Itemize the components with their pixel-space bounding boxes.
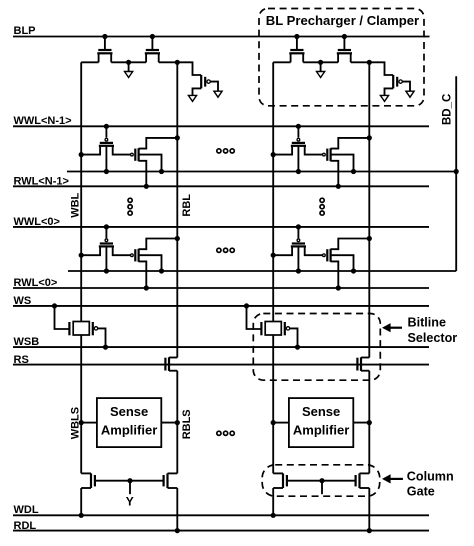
bitline-selector transmission gate (right column, on WBL) <box>261 322 289 336</box>
ground-arrow at precharge middle node (right column) <box>317 62 325 77</box>
svg-text:RWL<N-1>: RWL<N-1> <box>14 175 69 187</box>
wire WBLS to WDL (right column) <box>271 488 276 518</box>
precharge transistor MP1 (right column, gate to BLP) <box>289 34 304 62</box>
wire MR source to read word line (row N-1, right column) <box>331 161 341 189</box>
ellipsis dots between columns (row 0) <box>217 248 235 252</box>
wire RBL/RBLS vertical (left column, middle part) <box>176 371 178 474</box>
svg-text:Amplifier: Amplifier <box>293 423 349 438</box>
wire WBLS to sense amplifier (left column) <box>79 420 97 425</box>
svg-text:WDL: WDL <box>14 504 39 516</box>
svg-text:RBLS: RBLS <box>181 409 193 439</box>
wire column-gate common gate / Y select (left column) <box>95 478 164 494</box>
wire precharge middle node (right column) <box>303 60 338 65</box>
clamp transistor PMOS (right column) <box>369 62 402 88</box>
column-gate transistor on WBLS (right column) <box>273 473 287 488</box>
svg-text:BD_C: BD_C <box>441 94 453 125</box>
wire WBLS to sense amplifier (right column) <box>271 420 289 425</box>
write transistor MW (row 0, left column, gate to word line) <box>79 224 131 258</box>
wire MP1 source to WBL top (left column) <box>81 61 98 63</box>
wire MR source to read word line (row 0, left column) <box>139 261 149 290</box>
wire WDL (write data line) <box>13 514 429 516</box>
wire bulk/body line of row 0 (connects to BD_C) <box>68 270 456 272</box>
write transistor MW (row N-1, right column, gate to word line) <box>271 124 323 157</box>
wire bulk/body line of row N-1 (connects to BD_C) <box>67 171 456 173</box>
wire MP2 drain to RBL top node (right column) <box>351 60 372 65</box>
sense amplifier block U1 (left column) <box>97 398 161 447</box>
read transistor MR (row N-1, left column, gate to storage node) <box>131 148 139 161</box>
wire RBL/RBLS vertical (right column, middle part) <box>368 371 370 474</box>
wire MR source to read word line (row N-1, left column) <box>139 161 149 189</box>
wire WBLS to WDL (left column) <box>79 488 84 518</box>
svg-text:Sense: Sense <box>302 404 340 419</box>
wire clamp drain to ground-arrow (right column) <box>380 88 393 101</box>
wire sense amplifier to RBLS (left column) <box>161 420 180 425</box>
read transistor MR (row N-1, right column, gate to storage node) <box>323 148 331 161</box>
bulk tap of write transistor MW (row 0, left column) <box>104 246 109 273</box>
wire WBL vertical (left column, upper part) <box>80 62 82 321</box>
svg-text:Amplifier: Amplifier <box>101 423 157 438</box>
svg-text:Selector: Selector <box>408 331 458 345</box>
wire MR drain to RBL (row 0, right column) <box>331 236 372 249</box>
svg-text:Y: Y <box>126 495 134 509</box>
dashed box: Column Gate <box>262 465 380 496</box>
wire sense amplifier to RBLS (right column) <box>353 420 372 425</box>
bulk tap of read transistor MR (row N-1, left column) <box>139 155 164 174</box>
svg-text:WBL: WBL <box>70 192 82 217</box>
svg-text:WWL<0>: WWL<0> <box>14 216 60 228</box>
column-gate transistor on WBLS (left column) <box>81 473 95 488</box>
read-select transistor (left column, gate to RS, in series with RBL) <box>165 357 177 371</box>
wire RBLS to RDL (right column) <box>367 488 372 533</box>
wire RWL<N-1> (read word line N-1) <box>13 185 429 187</box>
column-gate transistor on RBLS (left column) <box>164 473 178 488</box>
wire RBL vertical (left column, upper part) <box>176 62 178 357</box>
arrow pointing to bitline selector box <box>382 323 402 332</box>
ellipsis dots between columns (row N-1) <box>217 149 235 153</box>
svg-text:BL Precharger / Clamper: BL Precharger / Clamper <box>266 13 419 28</box>
wire MR drain to RBL (row N-1, left column) <box>139 135 180 148</box>
bulk tap of read transistor MR (row 0, left column) <box>139 255 164 273</box>
svg-text:WSB: WSB <box>14 336 40 348</box>
wire BLP (bitline precharge net) <box>13 36 430 38</box>
wire WS to selector gate (left column) <box>52 303 70 329</box>
wire MR source to read word line (row 0, right column) <box>331 261 341 290</box>
svg-text:WWL<N-1>: WWL<N-1> <box>14 115 72 127</box>
wire WWL<0> (write word line 0) <box>13 226 429 228</box>
wire RBLS to RDL (left column) <box>175 488 180 533</box>
dashed box: Bitline Selector <box>253 314 380 381</box>
wire clamp drain to ground-arrow (left column) <box>188 88 201 101</box>
svg-text:Sense: Sense <box>110 404 148 419</box>
ground-arrow at precharge middle node (left column) <box>125 62 133 77</box>
wire RBL vertical (right column, upper part) <box>368 62 370 357</box>
wire WSB (write select bar) <box>13 346 429 348</box>
wire RDL (read data line) <box>13 530 429 532</box>
svg-text:RWL<0>: RWL<0> <box>14 277 58 289</box>
wire BD_C (body bias line, vertical at right) <box>455 76 457 271</box>
wire selector PMOS gate to WSB (right column) <box>290 328 300 349</box>
svg-text:RS: RS <box>14 354 29 366</box>
label: Bitline Selector <box>408 315 458 344</box>
wire MR drain to RBL (row 0, left column) <box>139 236 180 249</box>
ellipsis dots between sense amplifiers <box>217 431 235 435</box>
wire RWL<0> (read word line 0) <box>13 287 429 289</box>
read transistor MR (row 0, left column, gate to storage node) <box>131 249 139 262</box>
wire RS (read select) <box>13 364 429 366</box>
bulk tap of read transistor MR (row 0, right column) <box>331 255 357 273</box>
wire MP2 drain to RBL top node (left column) <box>159 60 180 65</box>
bulk tap of read transistor MR (row N-1, right column) <box>331 155 357 174</box>
dashed box: BL Precharger / Clamper <box>259 9 424 106</box>
read-select transistor (right column, gate to RS, in series with RBL) <box>357 357 369 371</box>
write transistor MW (row N-1, left column, gate to word line) <box>79 124 131 157</box>
wire WBL/WBLS vertical (right column, lower part) <box>272 335 274 473</box>
wire MR drain to RBL (row N-1, right column) <box>331 135 372 148</box>
svg-text:BLP: BLP <box>14 25 36 37</box>
write transistor MW (row 0, right column, gate to word line) <box>271 224 323 258</box>
read transistor MR (row 0, right column, gate to storage node) <box>323 249 331 262</box>
wire WWL<N-1> (write word line N-1) <box>13 125 429 127</box>
precharge transistor MP1 (left column, gate to BLP) <box>97 34 112 62</box>
wire WBL vertical (right column, upper part) <box>272 62 274 321</box>
sense amplifier block U2 (right column) <box>289 398 353 447</box>
svg-text:Column: Column <box>407 469 454 483</box>
ellipsis dots between rows (right column) <box>320 198 324 215</box>
wire clamp gate to ground-arrow (right column) <box>402 82 414 98</box>
svg-text:Bitline: Bitline <box>408 315 446 329</box>
bitline-selector transmission gate (left column, on WBL) <box>69 322 97 336</box>
wire column-gate common gate / Y select (right column) <box>287 478 356 494</box>
clamp transistor PMOS (left column) <box>177 62 210 88</box>
wire WS (write select) <box>13 305 429 307</box>
wire WBL/WBLS vertical (left column, lower part) <box>80 335 82 473</box>
arrow pointing to column gate box <box>382 474 403 483</box>
svg-text:RDL: RDL <box>14 520 37 532</box>
bulk tap of write transistor MW (row 0, right column) <box>296 246 301 273</box>
wire selector PMOS gate to WSB (left column) <box>98 328 108 349</box>
svg-text:Gate: Gate <box>407 485 435 499</box>
precharge transistor MP2 (left column, gate to BLP) <box>145 34 160 62</box>
bulk tap of write transistor MW (row N-1, left column) <box>104 146 109 174</box>
svg-text:RBL: RBL <box>181 194 193 217</box>
label: Column Gate <box>407 469 454 498</box>
junction of BD_C with row N-1 bulk line <box>454 169 459 174</box>
wire precharge middle node (left column) <box>111 60 146 65</box>
wire MP1 source to WBL top (right column) <box>273 61 290 63</box>
precharge transistor MP2 (right column, gate to BLP) <box>337 34 352 62</box>
bulk tap of write transistor MW (row N-1, right column) <box>296 146 301 174</box>
wire WS to selector gate (right column) <box>244 303 262 329</box>
wire clamp gate to ground-arrow (left column) <box>210 82 222 98</box>
column-gate transistor on RBLS (right column) <box>356 473 370 488</box>
svg-text:WS: WS <box>14 295 32 307</box>
ellipsis dots between rows (left column) <box>128 198 132 215</box>
